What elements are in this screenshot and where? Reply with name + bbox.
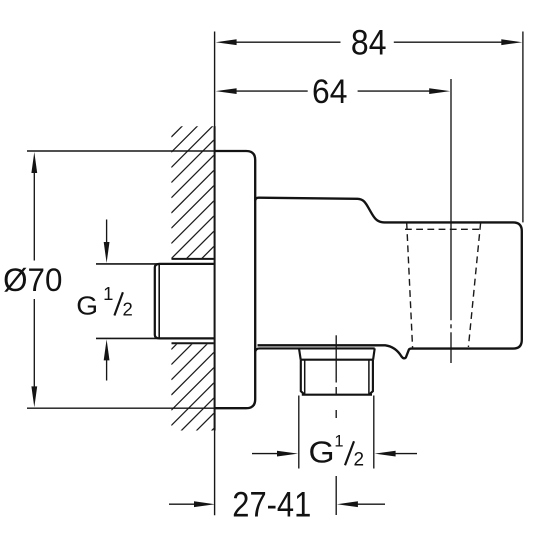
inlet G1/2 label — [76, 283, 133, 320]
inlet nipple G1/2 extension line top — [96, 263, 214, 265]
hex left outer edge — [301, 360, 305, 395]
extension line 84 right — [522, 32, 524, 223]
arrow 27-41 right — [337, 501, 358, 507]
svg-text:64: 64 — [312, 72, 347, 110]
svg-text:84: 84 — [351, 24, 387, 63]
holder cup hidden top rim (dashed) — [405, 228, 482, 230]
holder centerline (64 extension) — [450, 79, 452, 363]
holder cup hidden left cone line (dashed) — [407, 223, 413, 348]
escutcheon wall plate — [215, 151, 256, 408]
hex right outer edge — [369, 360, 373, 395]
svg-text:2: 2 — [123, 299, 133, 320]
outlet G1/2 label — [309, 433, 365, 471]
arrow 84 left — [216, 39, 237, 45]
svg-text:2: 2 — [354, 449, 365, 470]
svg-text:1: 1 — [334, 433, 343, 451]
extension lines bottom G1/2 — [298, 396, 300, 469]
dimension dia70 line — [33, 166, 35, 394]
svg-text:Ø70: Ø70 — [3, 262, 62, 298]
extension line plate top (dia 70) — [27, 150, 215, 152]
arrow 27-41 left — [194, 501, 215, 507]
body arm top outline with S-curve and holder block — [255, 198, 522, 359]
outlet G1/2 dimension left line — [252, 453, 281, 455]
wall face line / extension line (full vertical) — [214, 32, 216, 516]
hex inner flat left — [304, 360, 306, 395]
hex inner flat right — [368, 360, 370, 395]
dimension 27-41 left line — [169, 503, 199, 505]
arrow dia70 bottom — [31, 386, 37, 407]
svg-text:27-41: 27-41 — [232, 486, 311, 525]
inlet nipple chamfer line — [158, 264, 160, 339]
outlet boss top line with fillet at plate — [255, 348, 375, 352]
outlet G1/2 arrow right — [375, 451, 396, 457]
wall face thick segment — [214, 126, 216, 430]
inlet G1/2 small arrow bottom line — [106, 357, 108, 381]
svg-text:1: 1 — [103, 283, 113, 304]
arrow 84 right — [501, 39, 522, 45]
outlet flange right edge — [373, 348, 375, 359]
outlet flange left edge — [299, 348, 301, 359]
inlet nipple G1/2 extension line bottom — [96, 337, 214, 339]
inlet G1/2 small arrow top — [104, 242, 110, 263]
holder cup hidden right cone line (dashed) — [468, 223, 480, 347]
outlet G1/2 dimension right line — [392, 453, 417, 455]
dimension 64 line — [230, 90, 436, 92]
wall hatching upper — [171, 95, 214, 290]
arrow dia70 top — [31, 152, 37, 173]
hex top line — [301, 359, 373, 361]
wall hole top edge — [172, 258, 214, 260]
outlet G1/2 arrow left — [277, 451, 298, 457]
arrow 64 left — [216, 88, 237, 94]
inlet nipple outline — [155, 264, 214, 339]
outlet centerline — [335, 335, 337, 515]
arrow 64 right — [429, 88, 450, 94]
extension line plate bottom (dia 70) — [27, 407, 215, 409]
hex bottom edge — [302, 394, 372, 396]
wall hole bottom edge — [172, 342, 214, 344]
dimension 84 line — [230, 41, 507, 43]
inlet G1/2 small arrow bottom — [104, 339, 110, 360]
svg-text:G: G — [76, 291, 98, 320]
svg-text:G: G — [309, 435, 335, 469]
dimension 27-41 right line — [353, 503, 385, 505]
wall hatching lower — [171, 307, 214, 471]
inlet G1/2 small arrow top line — [106, 220, 108, 247]
